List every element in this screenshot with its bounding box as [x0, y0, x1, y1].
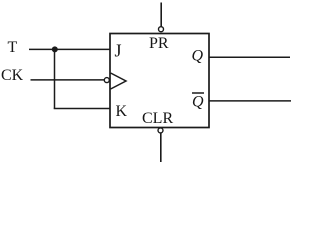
- wire to K: [54, 108, 110, 110]
- wire T to J: [29, 48, 110, 50]
- svg-text:CLR: CLR: [142, 110, 173, 127]
- svg-text:CK: CK: [1, 67, 24, 84]
- svg-text:Q: Q: [192, 94, 204, 111]
- svg-text:J: J: [115, 41, 122, 61]
- clock input bubble: [104, 78, 109, 83]
- wire Q-bar output: [209, 100, 291, 102]
- CLR stub wire: [160, 133, 162, 162]
- flip-flop U1 body: [110, 34, 209, 128]
- wire Q output: [209, 56, 290, 58]
- wire CK to clock input: [31, 79, 105, 81]
- clock edge triangle: [111, 73, 126, 89]
- PR bubble: [159, 27, 164, 32]
- junction dot on T wire: [52, 46, 58, 52]
- svg-text:PR: PR: [149, 35, 169, 52]
- PR stub wire: [160, 3, 162, 27]
- overline of Q-bar: [192, 92, 204, 94]
- wire vertical from junction down: [54, 49, 56, 108]
- CLR bubble: [158, 128, 163, 133]
- svg-text:T: T: [8, 39, 18, 56]
- svg-text:Q: Q: [192, 48, 204, 65]
- svg-text:K: K: [116, 103, 128, 120]
